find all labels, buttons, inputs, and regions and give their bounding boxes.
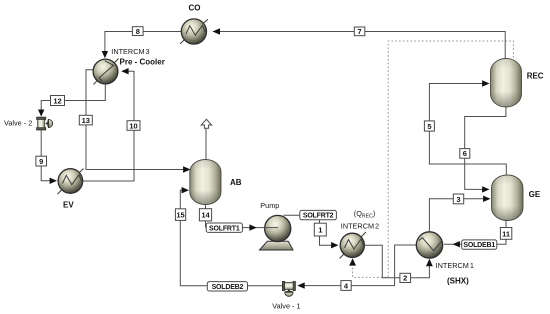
vessel REC (rectifier) <box>491 59 522 108</box>
arrow into AB lower left <box>182 187 189 193</box>
arrow into Valve-1 right side <box>297 282 304 288</box>
svg-text:Pre - Cooler: Pre - Cooler <box>120 57 165 66</box>
heat-exchanger INTERCM3 Pre-Cooler <box>93 59 118 85</box>
svg-text:INTERCM3: INTERCM3 <box>111 47 149 56</box>
stream label box 7 <box>354 27 365 36</box>
valve V2 (Valve - 2) <box>37 117 53 130</box>
arrow heat stream into INTERCM2 bottom <box>349 258 356 265</box>
wire stream 11 / SOLDEB1 (GE to INTERCM1) <box>444 221 506 245</box>
heat-exchanger EV (evaporator) <box>58 169 84 195</box>
arrow into Pre-Cooler right side <box>121 68 128 74</box>
wire stream 13 (Pre-Cooler to absorber AB) <box>86 70 189 170</box>
arrow into CO right side <box>213 28 221 35</box>
svg-text:5: 5 <box>427 122 431 131</box>
arrow into Pump <box>249 224 256 230</box>
svg-text:INTERCM1: INTERCM1 <box>436 261 474 270</box>
svg-text:9: 9 <box>39 157 43 166</box>
valve V1 (Valve - 1) <box>282 281 295 296</box>
svg-text:8: 8 <box>136 27 140 36</box>
heat stream QREC dashed (REC to INTERCM2) <box>353 41 514 277</box>
wire SOLDEB2 / stream 15 (Valve-1 to AB) <box>180 190 282 286</box>
svg-text:EV: EV <box>63 201 74 210</box>
svg-text:10: 10 <box>129 121 137 130</box>
pump Pump <box>260 215 294 250</box>
svg-text:SOLFRT2: SOLFRT2 <box>303 213 334 220</box>
svg-text:GE: GE <box>529 190 541 199</box>
svg-text:(QREC): (QREC) <box>354 209 376 220</box>
svg-text:13: 13 <box>82 116 90 125</box>
arrow into Pre-Cooler top <box>102 51 108 58</box>
stream label box 11 <box>500 228 511 240</box>
wire stream 14 / SOLFRT1 (AB to Pump) <box>206 205 279 228</box>
svg-text:SOLFRT1: SOLFRT1 <box>209 225 240 232</box>
arrow into INTERCM1 right side <box>453 241 460 247</box>
svg-text:Valve - 2: Valve - 2 <box>4 119 32 128</box>
svg-text:2: 2 <box>403 274 407 283</box>
stream label box 1 <box>314 223 326 236</box>
arrow into INTERCM2 left side <box>331 242 338 248</box>
svg-text:Pump: Pump <box>260 201 279 210</box>
wire stream 7 (REC top to condenser CO) <box>213 32 505 59</box>
vessel AB (absorber) <box>190 160 221 205</box>
svg-text:6: 6 <box>463 149 467 158</box>
stream label box 12 <box>51 96 65 106</box>
wire stream 6 (REC bottom to GE) <box>465 107 506 189</box>
stream label box 6 <box>460 149 470 159</box>
wire stream 12 (Pre-Cooler to Valve-2) <box>41 84 105 111</box>
svg-text:(SHX): (SHX) <box>447 277 469 286</box>
stream name box SOLDEB1 <box>462 240 497 249</box>
wire stream 4 (INTERCM1 to Valve-1) <box>299 245 416 286</box>
vessel GE (generator) <box>492 175 524 221</box>
stream label box 14 <box>199 209 211 221</box>
wire stream 10 (EV to Pre-Cooler) <box>83 71 134 181</box>
wire stream 2 (INTERCM2 to INTERCM1) <box>364 245 429 277</box>
stream label box 15 <box>175 209 185 221</box>
svg-text:AB: AB <box>230 178 242 187</box>
wire stream 3 (INTERCM1 to generator GE) <box>429 199 489 232</box>
stream name box SOLFRT1 <box>206 223 242 232</box>
stream label box 9 <box>36 156 47 166</box>
svg-text:3: 3 <box>456 195 460 204</box>
arrow into GE left side <box>483 196 490 202</box>
vent outline arrow above AB <box>201 119 212 128</box>
svg-text:15: 15 <box>176 211 184 220</box>
svg-text:7: 7 <box>358 27 362 36</box>
stream label box 8 <box>132 27 143 36</box>
svg-text:Valve - 1: Valve - 1 <box>272 301 300 310</box>
wire stream 5 (GE top to REC) <box>429 84 506 176</box>
arrow into Valve-2 top <box>38 110 44 117</box>
svg-text:1: 1 <box>318 226 322 235</box>
stream name box SOLFRT2 <box>300 210 337 219</box>
stream label box 5 <box>424 121 434 131</box>
stream name box SOLDEB2 <box>207 282 247 291</box>
svg-text:11: 11 <box>502 230 510 239</box>
svg-text:INTERCM2: INTERCM2 <box>341 222 379 231</box>
wire stream 8 (CO to Pre-Cooler) <box>105 32 181 58</box>
arrow into EV left side <box>50 178 57 184</box>
stream label box 3 <box>453 194 463 204</box>
wire SOLFRT2 / stream 1 (Pump to INTERCM2) <box>284 215 338 245</box>
stream label box 13 <box>79 115 92 125</box>
stream label box 10 <box>127 121 140 131</box>
svg-text:CO: CO <box>189 3 201 12</box>
heat-exchanger CO (condenser) <box>180 19 208 44</box>
arrow into REC left side <box>482 80 489 86</box>
svg-text:REC: REC <box>527 72 544 81</box>
svg-text:14: 14 <box>201 211 210 220</box>
wire stream 9 (Valve-2 to EV) <box>41 131 55 181</box>
wire AB vent line <box>205 128 207 159</box>
stream label box 4 <box>341 281 351 291</box>
heat-exchanger INTERCM2 <box>340 232 367 259</box>
stream label box 2 <box>400 273 411 282</box>
arrow into INTERCM1 bottom <box>426 259 433 266</box>
arrow into AB upper left <box>183 166 190 172</box>
svg-text:SOLDEB2: SOLDEB2 <box>212 284 244 291</box>
arrow into GE upper left <box>482 186 489 192</box>
svg-text:12: 12 <box>53 96 61 105</box>
svg-text:SOLDEB1: SOLDEB1 <box>463 242 495 249</box>
heat-exchanger INTERCM1 (SHX) <box>416 232 442 258</box>
